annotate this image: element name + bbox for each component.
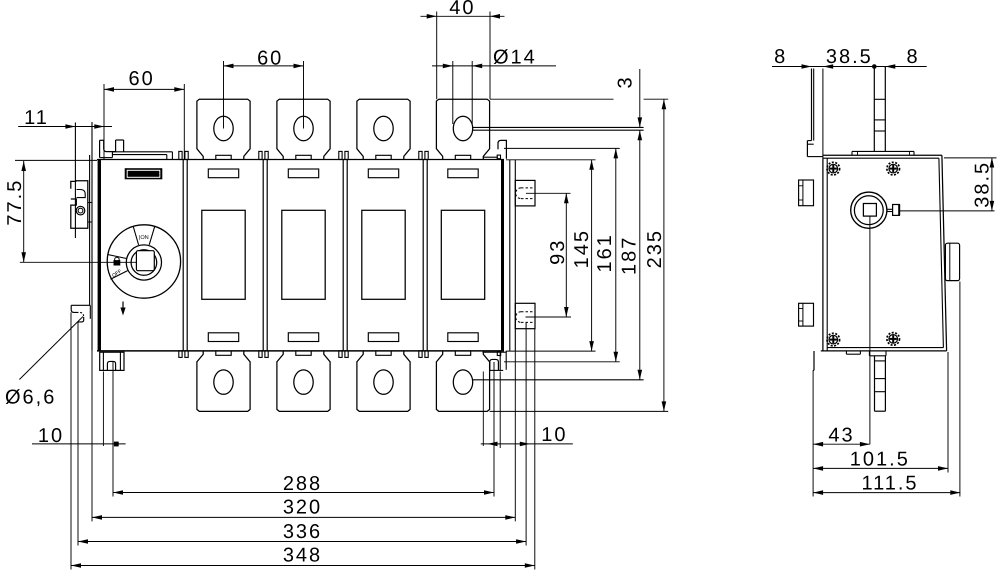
right rail fuse clip bottom	[515, 303, 535, 329]
side view upper left wall bracket	[807, 69, 823, 159]
svg-text:10: 10	[541, 424, 567, 446]
pole 3 face slots and window	[362, 169, 405, 342]
svg-text:Ø6,6: Ø6,6	[5, 386, 56, 408]
side view top cover plate	[852, 151, 914, 155]
svg-text:38.5: 38.5	[971, 161, 993, 208]
svg-text:336: 336	[283, 521, 322, 543]
pole 2 face slots and window	[282, 169, 325, 342]
side view fixing screws	[827, 162, 840, 175]
svg-text:288: 288	[283, 473, 322, 495]
svg-text:93: 93	[547, 239, 569, 265]
handle down arrow marker	[120, 302, 125, 316]
top cover plate left section	[112, 152, 172, 160]
dim 38.5 right (shaft centre)	[899, 158, 996, 211]
dim 10 left (foot slot)	[32, 425, 126, 447]
svg-text:320: 320	[283, 497, 322, 519]
svg-text:187: 187	[618, 236, 640, 275]
dim 320	[92, 351, 515, 522]
dim 40 (tab width)	[421, 0, 505, 99]
svg-text:Ø14: Ø14	[493, 46, 537, 68]
pole partition walls	[179, 151, 501, 357]
svg-text:77.5: 77.5	[4, 179, 26, 226]
SIEMENS logo plate	[125, 169, 162, 179]
side view shaft bezel	[851, 192, 900, 228]
svg-text:SIEMENS: SIEMENS	[127, 170, 160, 179]
label dia 6.6 with leader	[5, 317, 83, 409]
upper left bracket lug with hole	[71, 181, 88, 228]
dim 60 top (pole pitch)	[224, 48, 304, 129]
svg-text:111.5: 111.5	[861, 473, 918, 495]
side view: body outline	[821, 155, 947, 351]
side view top drive shaft	[874, 67, 885, 152]
dim chain 8 / 38.5 / 8 top	[772, 46, 927, 69]
dim 336	[78, 322, 526, 546]
dim 101.5	[813, 352, 948, 473]
pole 4 top terminal tab	[436, 99, 489, 159]
svg-text:161: 161	[594, 233, 616, 272]
dim 235 vertical (overall height)	[490, 99, 669, 411]
svg-text:101.5: 101.5	[850, 449, 910, 471]
svg-text:40: 40	[449, 0, 475, 19]
dim 111.5	[813, 282, 960, 497]
pole 2 bottom terminal tab	[277, 351, 330, 411]
dim 161 vertical	[504, 148, 620, 361]
dim 10 right (foot slot)	[481, 372, 573, 449]
side view lower left wall bracket	[813, 351, 814, 370]
pole 1 top terminal tab	[197, 99, 250, 159]
side view DIN clip bottom	[799, 303, 814, 326]
svg-text:43: 43	[828, 424, 854, 446]
svg-text:8: 8	[906, 46, 919, 68]
dim 77.5 (handle centre)	[4, 160, 136, 262]
bottom right corner hook	[483, 352, 507, 370]
svg-text:10: 10	[38, 425, 64, 447]
dim 3 (busbar thickness)	[615, 69, 643, 127]
busbar line bottom	[472, 379, 643, 381]
pole 2 top terminal tab	[277, 99, 330, 159]
svg-text:|ON: |ON	[139, 234, 149, 241]
dim 43	[813, 370, 870, 496]
side view right terminal shield bump	[945, 243, 959, 280]
svg-text:38.5: 38.5	[826, 46, 873, 68]
bottom left mounting foot	[100, 352, 124, 370]
right rail fuse clip top	[515, 180, 535, 206]
side view vertical centreline	[869, 216, 871, 444]
pole 1 face slots and window	[202, 169, 245, 342]
svg-text:60: 60	[257, 48, 283, 70]
dim dia 14 (tab hole)	[432, 46, 556, 124]
top left corner posts	[100, 140, 124, 158]
lower left bracket lug with keyhole slot (6.6 dia)	[71, 305, 90, 322]
front view: switch body outline	[92, 122, 515, 351]
right rail lower extension	[505, 351, 507, 370]
dim 187 vertical	[618, 130, 642, 380]
extension lines under feet	[103, 372, 483, 447]
svg-text:60: 60	[128, 68, 154, 90]
svg-text:11: 11	[24, 107, 49, 129]
svg-text:8: 8	[774, 46, 787, 68]
busbar thickness lines top (3 mm)	[472, 127, 643, 130]
dim 11 (bracket offset)	[18, 107, 112, 129]
rotary handle	[107, 225, 180, 298]
dim 145 vertical (body height)	[506, 160, 596, 351]
svg-text:348: 348	[283, 545, 322, 567]
pole 1 bottom terminal tab	[197, 351, 250, 411]
svg-text:235: 235	[644, 229, 666, 268]
top right corner post	[483, 140, 507, 158]
pole 3 bottom terminal tab	[357, 351, 410, 411]
svg-text:145: 145	[571, 229, 593, 268]
svg-text:3: 3	[615, 75, 637, 88]
dim 60 left (mechanism width)	[104, 68, 184, 159]
pole 3 top terminal tab	[357, 99, 410, 159]
side view bottom shaft and base	[846, 351, 886, 411]
pole 4 face slots and window	[441, 169, 484, 342]
dim 93 vertical (clip spacing)	[526, 193, 572, 317]
dim 348 (overall width)	[71, 312, 535, 569]
left mounting rail plates	[75, 123, 92, 306]
side view DIN clip top	[799, 180, 814, 206]
pole 4 bottom terminal tab	[436, 351, 489, 411]
dim 288 (foot centres)	[113, 362, 494, 497]
